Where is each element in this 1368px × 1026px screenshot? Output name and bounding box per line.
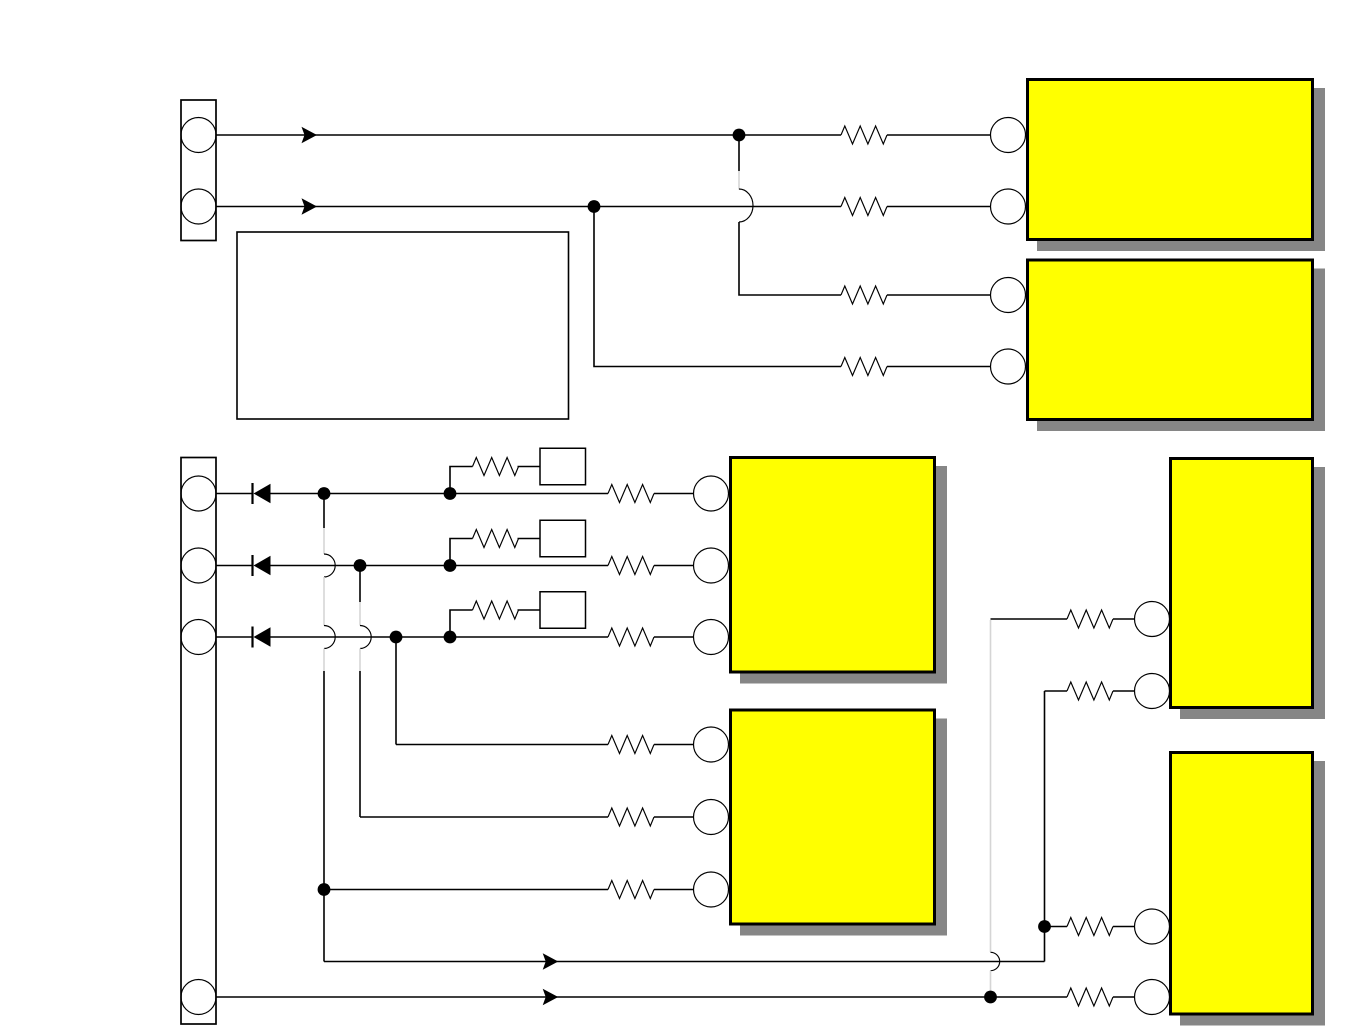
resistor R6 xyxy=(608,557,654,575)
junction node N4 on row5 xyxy=(444,487,457,500)
connector J2 pin 3 xyxy=(181,620,216,655)
wire row12: J2.4 to R14 xyxy=(216,996,1067,998)
diode D6 xyxy=(253,555,271,576)
wire row1: J1.1 to R1 xyxy=(216,134,841,136)
wire N5 drop lower segment xyxy=(359,671,361,817)
flow arrow on row11 wire xyxy=(543,953,559,969)
junction node N6 on row6 xyxy=(444,559,457,572)
U3 terminal c xyxy=(694,620,729,655)
block U2 (output module) xyxy=(1028,260,1326,431)
wire N3 drop segment 1 xyxy=(323,494,325,529)
faded vertical link lower xyxy=(990,971,992,997)
resistor R10 xyxy=(608,881,654,899)
U5 terminal a xyxy=(1135,602,1170,637)
junction node N11 on row12 xyxy=(984,991,997,1004)
junction node N8 on row7 xyxy=(444,631,457,644)
wire R10 to U4 terminal c xyxy=(654,889,694,891)
connector J1 pin 1 xyxy=(181,118,216,153)
wire R9 to U4 terminal b xyxy=(654,816,694,818)
flow arrow on row1 wire xyxy=(302,127,318,143)
wire hop over row11 at x990 xyxy=(991,952,1000,970)
wire N3 drop faded segment 1 xyxy=(323,528,325,554)
wire N3 drop faded segment 3 xyxy=(323,649,325,672)
junction node N7 on row7 xyxy=(390,631,403,644)
wire hop over row7 at x360 xyxy=(360,626,371,649)
wire rowB drop to node N10 xyxy=(1044,691,1046,927)
wire row9 run to R9 xyxy=(360,816,608,818)
wire row2: J1.2 to R2 xyxy=(216,206,841,208)
U2 terminal b xyxy=(991,349,1026,384)
flow arrow on row2 wire xyxy=(302,198,318,214)
connector J2 pin 4 xyxy=(181,980,216,1015)
wire row10 run to R10 xyxy=(324,889,608,891)
resistor R3 xyxy=(841,286,887,304)
wire R11 to U5 terminal a xyxy=(1113,618,1135,620)
connector J1 body xyxy=(181,100,216,241)
wire R3 to U2 pin a xyxy=(887,294,991,296)
wire row5: diode D5 to R5 xyxy=(271,493,609,495)
branch row7 up to RC filter xyxy=(450,610,473,637)
wire row6: diode D6 to R6 xyxy=(271,565,609,567)
wire J2 to diode D7 xyxy=(216,636,253,638)
junction node N5 on row6 xyxy=(354,559,367,572)
wire N1 drop faded segment xyxy=(738,171,740,190)
junction node N3 on row5 xyxy=(318,487,331,500)
resistor R5b (filter) xyxy=(473,458,519,476)
resistor R4 xyxy=(841,358,887,376)
component box B7 xyxy=(540,592,586,629)
connector J2 body xyxy=(181,458,216,1025)
wire R6b to box B6 xyxy=(518,538,541,540)
wire R1 to U1 pin a xyxy=(887,134,991,136)
wire J2 to diode D5 xyxy=(216,493,253,495)
U4 terminal c xyxy=(694,872,729,907)
resistor R12 xyxy=(1067,682,1113,700)
wire R5b to box B5 xyxy=(518,466,541,468)
junction node N1 on row1 xyxy=(733,129,746,142)
junction node N2 on row2 xyxy=(588,200,601,213)
wire row11: N3 drop across to riser xyxy=(324,961,1045,963)
wire R7b to box B7 xyxy=(518,609,541,611)
resistor R9 xyxy=(608,808,654,826)
wire row8 run to R8 xyxy=(396,744,608,746)
wire N7 drop to row8 xyxy=(395,637,397,745)
U4 terminal a xyxy=(694,727,729,762)
block U1 (output module, top) xyxy=(1028,80,1326,252)
wire R13 to U6 terminal a xyxy=(1113,926,1135,928)
wire R2 to U1 pin b xyxy=(887,206,991,208)
U6 terminal a xyxy=(1135,909,1170,944)
component box B5 xyxy=(540,448,586,485)
block U3 (input module) xyxy=(731,458,948,684)
empty label box xyxy=(237,232,569,419)
flow arrow on row12 wire xyxy=(543,989,559,1005)
wire N3 drop faded segment 2 xyxy=(323,577,325,626)
wire N3 drop lower segment xyxy=(323,671,325,962)
U3 terminal b xyxy=(694,548,729,583)
component box B6 xyxy=(540,520,586,557)
wire rowC: N10 to R13 xyxy=(1045,926,1068,928)
wire R8 to U4 terminal a xyxy=(654,744,694,746)
resistor R6b (filter) xyxy=(473,530,519,548)
diode D7 xyxy=(253,627,271,648)
wire R4 to U2 pin b xyxy=(887,366,991,368)
U6 terminal b xyxy=(1135,980,1170,1015)
block U4 (input module) xyxy=(731,710,948,936)
wire R7 to U3 terminal xyxy=(654,636,694,638)
diode D5 xyxy=(253,483,271,504)
wire hop over row7 at x324 xyxy=(324,626,335,649)
resistor R7b (filter) xyxy=(473,601,519,619)
wire hop over row2 at N1 drop xyxy=(739,189,753,222)
U4 terminal b xyxy=(694,800,729,835)
branch row5 up to RC filter xyxy=(450,467,473,494)
wire J2 to diode D6 xyxy=(216,565,253,567)
resistor R8 xyxy=(608,736,654,754)
connector J1 pin 2 xyxy=(181,189,216,224)
U1 terminal a xyxy=(991,118,1026,153)
U1 terminal b xyxy=(991,189,1026,224)
wire rowB run to R12 xyxy=(1045,690,1068,692)
block U6 (right module, lower) xyxy=(1171,753,1326,1026)
wire R6 to U3 terminal xyxy=(654,565,694,567)
resistor R7 xyxy=(608,628,654,646)
connector J2 pin 2 xyxy=(181,548,216,583)
wire R14 to U6 terminal b xyxy=(1113,996,1135,998)
U2 terminal a xyxy=(991,278,1026,313)
wire N5 drop faded segment 2 xyxy=(359,649,361,672)
wire N5 drop faded segment xyxy=(359,602,361,626)
resistor R2 xyxy=(841,198,887,216)
wire row11 riser to node N10 xyxy=(1044,927,1046,962)
wire R12 to U5 terminal b xyxy=(1113,690,1135,692)
wire hop over row6 at x324 xyxy=(324,554,335,577)
junction node N10 on rowC xyxy=(1038,920,1051,933)
wire N5 drop segment 1 xyxy=(359,566,361,603)
resistor R11 xyxy=(1067,610,1113,628)
faded vertical link rowA to N11 upper xyxy=(990,620,992,952)
wire R5 to U3 terminal xyxy=(654,493,694,495)
resistor R14 xyxy=(1067,988,1113,1006)
resistor R1 xyxy=(841,126,887,144)
wire rowA run to R11 xyxy=(991,618,1068,620)
connector J2 pin 1 xyxy=(181,476,216,511)
wire N2 drop run to R4 xyxy=(594,207,841,367)
block U5 (right module, upper) xyxy=(1171,459,1326,720)
resistor R13 xyxy=(1067,918,1113,936)
branch row6 up to RC filter xyxy=(450,539,473,566)
resistor R5 xyxy=(608,485,654,503)
wire row7: diode D7 to R7 xyxy=(271,636,609,638)
wire N1 drop upper segment xyxy=(738,135,740,171)
junction node N9 on row10 xyxy=(318,883,331,896)
U3 terminal a xyxy=(694,476,729,511)
U5 terminal b xyxy=(1135,674,1170,709)
wire N1 drop lower run to R3 xyxy=(739,222,841,295)
